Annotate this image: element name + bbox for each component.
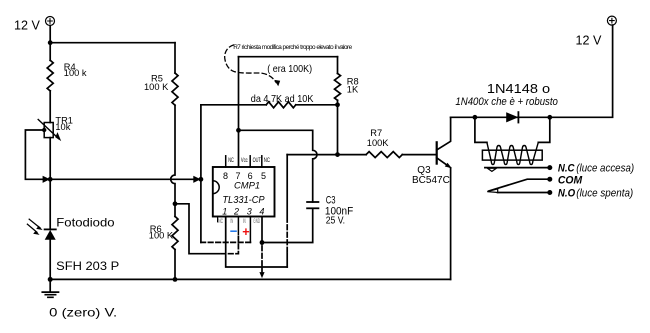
resistor R8 [335, 73, 341, 100]
arrowhead GND to rail [259, 272, 264, 278]
svg-text:CMP1: CMP1 [234, 179, 260, 190]
pin 1 stub and output wire [225, 217, 227, 218]
wire rail to R4 [49, 43, 51, 61]
ground symbol [42, 279, 58, 297]
relay arm COM [489, 179, 550, 191]
resistor R5 [172, 43, 178, 105]
arrowhead into node [193, 176, 200, 183]
svg-text:100 K: 100 K [144, 82, 169, 92]
svg-text:1: 1 [222, 207, 227, 217]
node R6 bottom on rail [173, 277, 178, 282]
wire R7 to Q3 base [402, 154, 436, 156]
svg-text:BC547C: BC547C [412, 175, 450, 186]
wire 12V left down [49, 26, 51, 43]
wire relay feed left [475, 117, 487, 142]
node divider [173, 201, 178, 206]
wire pin4 GND dashed to rail [261, 246, 263, 272]
resistor R4 [47, 60, 53, 91]
node wiper to feedback column [199, 177, 204, 182]
wire TR1 to wiper junction [49, 138, 51, 180]
power +12V left terminal [46, 17, 55, 26]
IC tiny pin names top [228, 157, 270, 164]
node N.O terminal [547, 190, 552, 195]
node TR1 bottom junction [48, 177, 53, 182]
svg-text:R7 richiesta modifica perché t: R7 richiesta modifica perché troppo elev… [233, 44, 352, 51]
svg-text:(luce accesa): (luce accesa) [576, 162, 634, 174]
wire R8 to output line [337, 100, 339, 154]
node diode cathode [547, 115, 552, 120]
wire wiper junction to comparator column [50, 178, 199, 180]
wire relay feed right [538, 117, 550, 142]
svg-text:5: 5 [261, 171, 266, 181]
power +12V right terminal [607, 16, 616, 25]
wire R4 to TR1 [49, 91, 51, 123]
wire collector rail to +12V right [451, 25, 613, 117]
wire Vcc branch to C3 with hop over output wire [239, 130, 318, 202]
relay contact N.O line [498, 192, 548, 194]
svg-text:0 (zero) V.: 0 (zero) V. [49, 305, 117, 319]
svg-text:1K: 1K [347, 84, 359, 94]
wire dashed IN+ old connection [201, 241, 251, 243]
pin tick bottom left [217, 217, 219, 222]
wire divider tap to IN- [175, 204, 220, 254]
pin 3 stub [249, 217, 251, 243]
node 12V rail left [48, 40, 53, 45]
svg-text:(luce spenta): (luce spenta) [576, 187, 633, 199]
relay moving contact arrow [487, 189, 497, 193]
photodiode D1 SFH203P [27, 219, 55, 240]
IC pin numbers bottom italic [222, 207, 264, 217]
svg-text:Q3: Q3 [417, 165, 431, 176]
wire bottom rail [50, 278, 450, 280]
wire TR1 wiper [25, 128, 50, 183]
svg-text:12 V: 12 V [14, 19, 41, 33]
svg-text:N.O: N.O [558, 187, 576, 199]
node diode anode [473, 115, 478, 120]
node COM terminal [547, 177, 552, 182]
op-amp U1 comparator body [213, 167, 275, 217]
wire Vcc vertical to pin7 [238, 57, 240, 167]
pin 2 stub [237, 217, 239, 235]
node GND C3 [260, 240, 265, 245]
resistor R6 [172, 204, 178, 280]
wire output vertical dashed [286, 223, 288, 252]
relay coil K1 [482, 142, 542, 164]
wire R5 to divider node with hop over wiper wire [171, 105, 175, 204]
wire dashed IN- segment [221, 236, 238, 254]
svg-text:4: 4 [259, 207, 264, 217]
transistor Q3 BC547C [437, 117, 452, 279]
svg-text:GND: GND [253, 218, 260, 225]
svg-text:100K: 100K [367, 138, 390, 148]
svg-text:TL331-CP: TL331-CP [222, 195, 264, 206]
svg-text:NC: NC [264, 157, 270, 164]
svg-text:8: 8 [223, 171, 228, 181]
svg-text:25 V.: 25 V. [326, 215, 345, 226]
wire output vertical to R7 line [286, 155, 288, 222]
wire output pin1 down [226, 217, 288, 267]
IC pin numbers top [223, 171, 266, 181]
IC tiny pin names bottom [218, 218, 260, 225]
wire pin4 GND solid [261, 217, 263, 244]
wire photodiode to ground rail [49, 240, 51, 280]
relay contact N.C line [485, 167, 548, 169]
wire junction to photodiode [49, 179, 51, 229]
svg-text:1N400x che è + robusto: 1N400x che è + robusto [455, 96, 558, 108]
svg-text:+: + [242, 225, 249, 239]
wire output to R7 [287, 154, 366, 156]
pin 8 stub [225, 156, 227, 167]
node N.C terminal [547, 165, 552, 170]
wire top rail to R5 [50, 42, 175, 44]
svg-text:3: 3 [247, 207, 252, 217]
diode 1N4148 [506, 112, 518, 122]
svg-text:2: 2 [233, 207, 239, 217]
svg-text:Vcc: Vcc [241, 157, 248, 164]
node R8 output [335, 152, 340, 157]
svg-text:100 k: 100 k [64, 68, 87, 78]
node ground junction [48, 277, 53, 282]
wire top loop rail [239, 56, 338, 58]
svg-text:NC: NC [218, 218, 223, 225]
svg-text:1N4148 o: 1N4148 o [487, 81, 550, 96]
capacitor C3 [307, 202, 318, 208]
relay fixed contact symbol [488, 168, 497, 171]
wire feedback left vertical [200, 105, 202, 243]
svg-text:N.C: N.C [558, 162, 576, 174]
svg-text:OUT: OUT [253, 157, 261, 164]
pin 5 stub [261, 156, 263, 167]
node Vcc branch [236, 128, 241, 133]
wire output vertical solid lower [286, 254, 288, 268]
svg-text:10k: 10k [55, 122, 70, 132]
annotation balloon dashed [225, 45, 277, 83]
svg-text:COM: COM [558, 174, 583, 186]
svg-text:−: − [230, 224, 238, 239]
svg-text:SFH 203 P: SFH 203 P [56, 259, 119, 273]
svg-text:Fotodiodo: Fotodiodo [56, 215, 115, 229]
svg-text:( era 100K): ( era 100K) [267, 64, 312, 75]
arrowhead annotation [274, 80, 280, 86]
wire C3 bottom to GND node [262, 208, 313, 242]
wire R8 top [337, 57, 339, 74]
resistor R7 [366, 152, 402, 158]
trimmer TR1 [38, 120, 61, 142]
svg-text:12 V: 12 V [576, 33, 603, 47]
pin 6 stub [249, 156, 251, 167]
resistor feedback da 4,7K ad 10K [201, 102, 338, 108]
svg-text:da 4,7K ad 10K: da 4,7K ad 10K [251, 94, 314, 105]
svg-text:R7: R7 [370, 128, 382, 138]
svg-text:IN: IN [243, 218, 246, 225]
svg-text:100 K: 100 K [149, 230, 174, 240]
node feedback to R8 [335, 102, 340, 107]
svg-text:NC: NC [228, 157, 234, 164]
